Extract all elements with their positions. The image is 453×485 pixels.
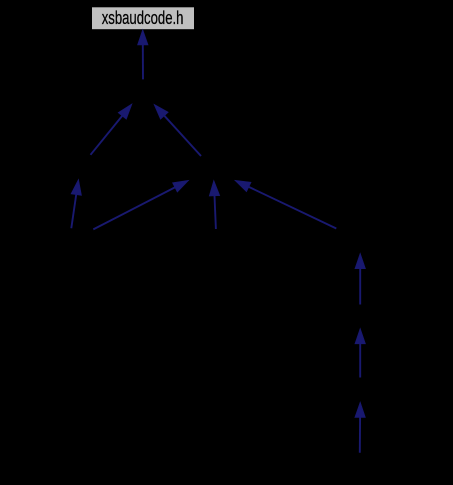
edge H to G arrow bbox=[355, 402, 366, 453]
edge C to A arrow bbox=[154, 104, 201, 156]
edge G to F arrow bbox=[355, 328, 366, 377]
edge B to A arrow bbox=[91, 104, 133, 155]
edge D to B arrow bbox=[71, 179, 82, 228]
svg-text:xsbaudcode.h: xsbaudcode.h bbox=[102, 8, 184, 28]
edge C2 to C arrow bbox=[209, 180, 220, 229]
edge F to E arrow bbox=[355, 253, 366, 304]
node T box xsbaudcode.h bbox=[92, 7, 194, 29]
edge E to C arrow bbox=[235, 180, 336, 228]
edge D to C arrow bbox=[93, 180, 188, 229]
edge A to T arrow bbox=[138, 30, 149, 80]
